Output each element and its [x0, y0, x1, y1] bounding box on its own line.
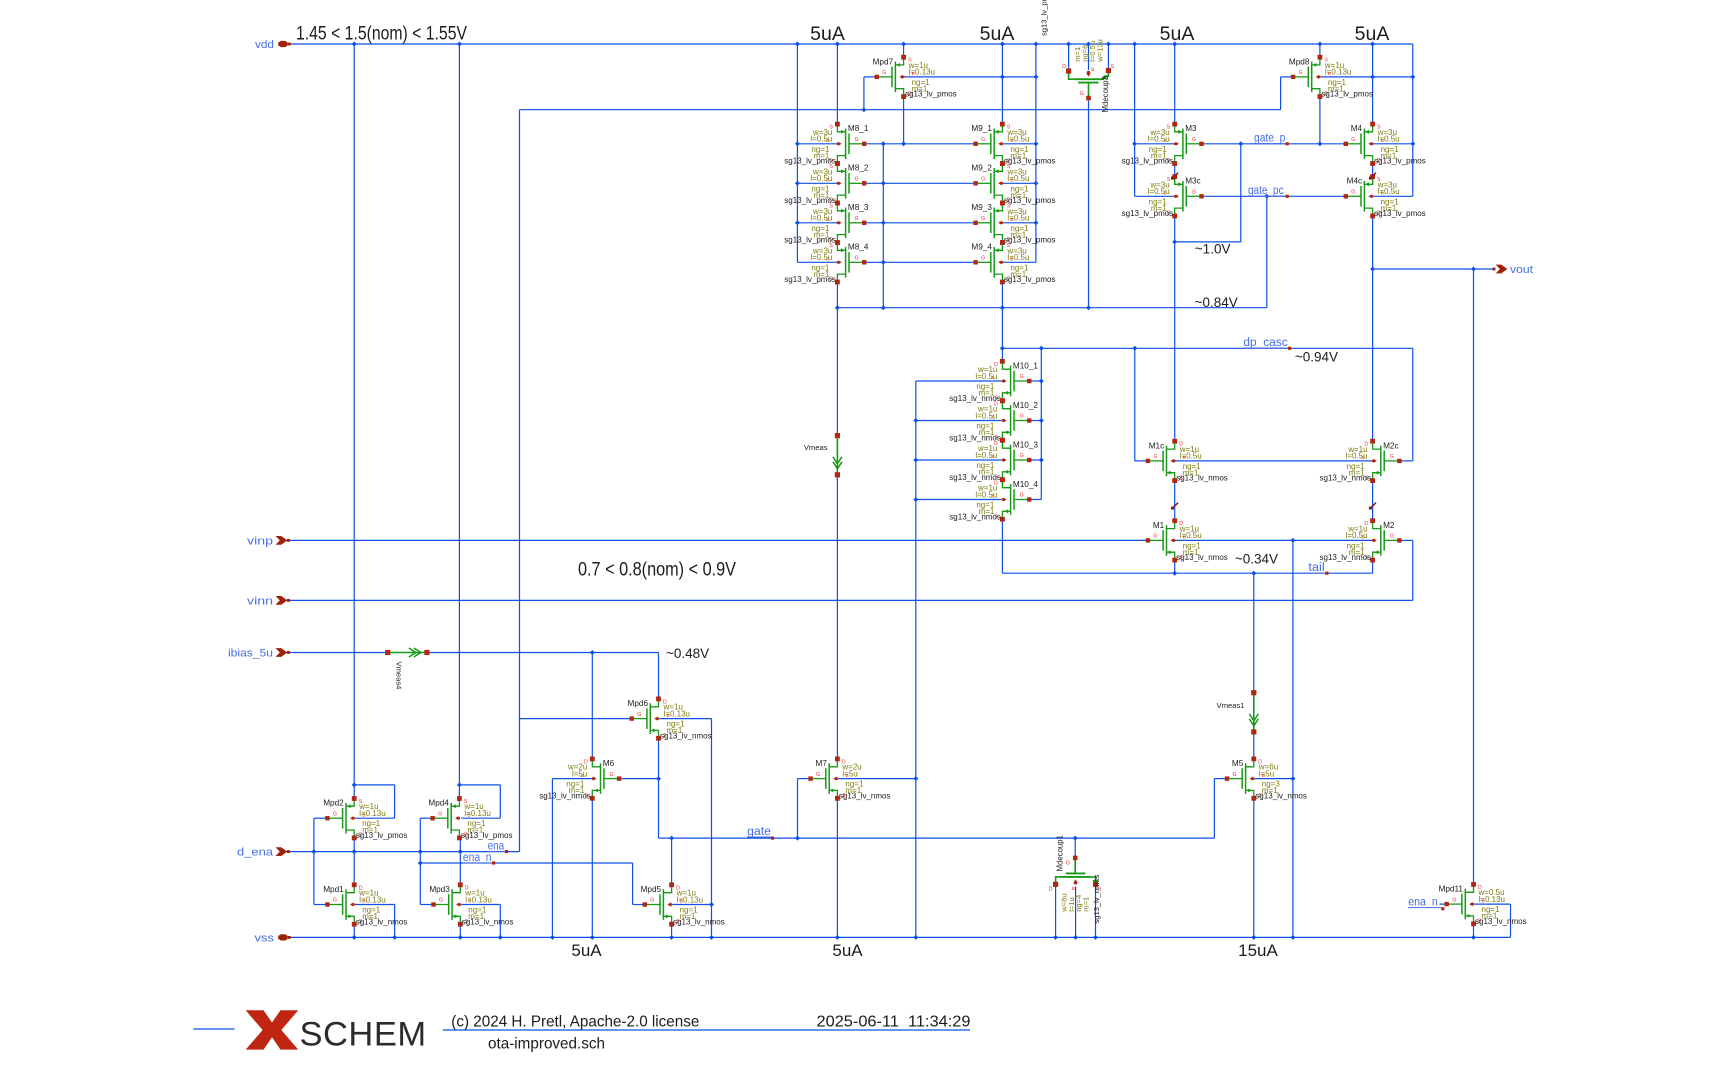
svg-text:l=0.5u: l=0.5u	[1007, 174, 1029, 183]
nmos M10_2	[1002, 402, 1010, 409]
wire gate_p label row	[1202, 143, 1347, 145]
svg-text:D: D	[1049, 887, 1053, 893]
wire Mpd7 bulk to vdd	[903, 76, 1036, 78]
svg-text:G: G	[1020, 493, 1024, 499]
svg-text:ibias_5u: ibias_5u	[228, 648, 273, 660]
svg-text:G: G	[1233, 772, 1237, 778]
nmos M2	[1373, 522, 1381, 529]
svg-text:5uA: 5uA	[980, 23, 1015, 45]
nmos Mpd11	[1465, 885, 1473, 892]
svg-text:5uA: 5uA	[832, 941, 863, 960]
svg-text:sg13_lv_pmos: sg13_lv_pmos	[1374, 157, 1426, 166]
svg-text:sg13_lv_nmos: sg13_lv_nmos	[1092, 874, 1101, 923]
svg-text:ena_n: ena_n	[1408, 897, 1438, 909]
junction dots	[352, 42, 357, 47]
port vinn	[276, 596, 288, 605]
svg-text:G: G	[1080, 91, 1084, 97]
wire ena_n row	[420, 862, 632, 864]
svg-text:M8_3: M8_3	[848, 203, 869, 212]
svg-text:G: G	[1020, 414, 1024, 420]
svg-text:G: G	[333, 898, 337, 904]
svg-text:G: G	[981, 216, 985, 222]
pmos M4c	[1364, 178, 1372, 185]
svg-text:M2: M2	[1383, 521, 1395, 530]
port vdd	[278, 41, 288, 47]
svg-text:l=0.5u: l=0.5u	[1007, 214, 1029, 223]
svg-text:l=5u: l=5u	[572, 769, 587, 778]
svg-text:Mpd4: Mpd4	[428, 799, 449, 808]
svg-text:sg13_lv_pmos: sg13_lv_pmos	[905, 90, 957, 99]
wire M6 gate to diode node	[619, 778, 659, 780]
svg-text:w=12u: w=12u	[1095, 39, 1104, 63]
svg-text:vdd: vdd	[255, 39, 274, 51]
svg-text:M8_1: M8_1	[848, 124, 869, 133]
svg-text:l=0.5u: l=0.5u	[1346, 452, 1368, 461]
wire Mpd11 gate stub	[1440, 903, 1447, 905]
wire M1-M2 bulk row	[1173, 539, 1375, 541]
wire M8 bulk rail	[796, 44, 798, 262]
wire M10 drain column	[1001, 348, 1003, 362]
nmos Mpd5	[663, 886, 671, 893]
wire vinp row	[289, 539, 1148, 541]
pmos M3c	[1175, 178, 1183, 185]
svg-text:l=0.5u: l=0.5u	[1346, 531, 1368, 540]
pmos Mdecoup3 (rotated)	[1069, 71, 1074, 79]
svg-text:l=0.13u: l=0.13u	[359, 809, 385, 818]
svg-text:l=0.5u: l=0.5u	[1007, 135, 1029, 144]
svg-text:sg13_lv_pmos: sg13_lv_pmos	[1122, 157, 1174, 166]
title underline	[443, 1029, 970, 1031]
wire Mpd3 source to vss	[459, 924, 461, 937]
ammeter Vmeas1	[1253, 693, 1255, 732]
svg-text:M5: M5	[1232, 759, 1244, 768]
svg-text:1.45 < 1.5(nom) < 1.55V: 1.45 < 1.5(nom) < 1.55V	[296, 23, 467, 44]
wire ibias corner to Mpd6	[658, 653, 660, 699]
svg-text:l=0.5u: l=0.5u	[1378, 135, 1400, 144]
svg-text:sg13_lv_pmos: sg13_lv_pmos	[784, 157, 836, 166]
wire M2c source to M2 drain	[1372, 481, 1374, 521]
wire M10 source to tail	[1001, 520, 1003, 574]
svg-text:G: G	[610, 772, 614, 778]
nmos M6	[592, 760, 600, 767]
svg-text:~0.48V: ~0.48V	[666, 646, 709, 661]
pmos M8_3	[837, 204, 845, 211]
svg-text:M10_2: M10_2	[1013, 401, 1038, 410]
svg-text:tail: tail	[1308, 562, 1324, 574]
wire Mpd3 column	[459, 852, 461, 885]
current hook M2c	[1370, 503, 1376, 508]
wire vout to Mpd11 column	[1473, 269, 1475, 885]
pmos M9_1	[994, 125, 1002, 132]
nmos M5	[1246, 760, 1254, 767]
svg-text:d_ena: d_ena	[237, 847, 273, 859]
svg-text:Mpd5: Mpd5	[641, 885, 662, 894]
nmos Mpd6	[650, 700, 658, 707]
wire Mpd8 drain to gate_p	[1319, 97, 1321, 144]
nmos M10_1	[1002, 362, 1010, 369]
svg-text:M8_4: M8_4	[848, 243, 869, 252]
wire Mpd4 source to vdd	[458, 44, 460, 799]
wire Mpd8 source	[1319, 44, 1321, 57]
wire Vmeas1 to M5 drain	[1253, 732, 1255, 759]
nmos Mpd1	[346, 886, 354, 893]
wire Mdecoup1 gate to gate row	[1074, 838, 1076, 856]
svg-text:gate: gate	[747, 826, 771, 838]
wire Mpd5 source to vss	[671, 924, 673, 937]
wire ena top run	[520, 109, 1281, 111]
svg-text:G: G	[1066, 861, 1070, 867]
wire Mpd7 source	[903, 44, 905, 57]
svg-text:sg13_lv_pmos: sg13_lv_pmos	[356, 831, 408, 840]
wire M7 source to vss	[836, 798, 838, 937]
svg-text:M10_4: M10_4	[1013, 480, 1038, 489]
wire Mpd7 drain to gate_p	[903, 97, 905, 144]
svg-text:ota-improved.sch: ota-improved.sch	[488, 1036, 605, 1053]
svg-text:ena: ena	[488, 840, 505, 852]
wire gate_pc label row	[1202, 195, 1347, 197]
wire Mdecoup3 gate to 0.84V	[1088, 101, 1090, 308]
svg-text:l=0.13u: l=0.13u	[464, 809, 490, 818]
svg-text:l=0.13u: l=0.13u	[909, 68, 935, 77]
wire gate_p row M8-M9	[864, 143, 975, 145]
svg-text:l=0.5u: l=0.5u	[1007, 253, 1029, 262]
wire Mpd2 bulk loop	[355, 817, 395, 819]
wire M10 gate chain	[1040, 348, 1042, 499]
pmos M8_1	[837, 125, 845, 132]
svg-text:vss: vss	[255, 933, 275, 945]
wire Mpd2 drain to Mpd1	[353, 838, 355, 885]
wire Mpd11 source to vss	[1473, 924, 1475, 937]
svg-text:l=0.13u: l=0.13u	[1325, 68, 1351, 77]
svg-text:~1.0V: ~1.0V	[1195, 242, 1231, 257]
svg-text:5uA: 5uA	[1160, 23, 1195, 45]
wire Mpd8 bulk to vdd	[1321, 76, 1413, 78]
wire Mpd1 source to vss	[353, 924, 355, 937]
wire Mpd6 bulk to vss	[659, 718, 711, 720]
current hook M4	[1370, 173, 1376, 178]
nmos M10_3	[1002, 441, 1010, 448]
wire M5 bulk	[1255, 778, 1293, 780]
pmos Mpd8	[1312, 58, 1320, 65]
wire Mpd2 source to vdd	[353, 44, 355, 799]
svg-text:Mpd11: Mpd11	[1439, 885, 1464, 894]
svg-text:Vmeas1: Vmeas1	[1217, 701, 1245, 710]
wire Mpd1 bulk to vss	[355, 904, 395, 906]
svg-text:sg13_lv_nmos: sg13_lv_nmos	[949, 512, 1001, 521]
svg-text:M1: M1	[1153, 521, 1165, 530]
svg-text:Mpd6: Mpd6	[628, 699, 649, 708]
wire M5 column to tail	[1253, 573, 1255, 693]
svg-text:G: G	[438, 811, 442, 817]
svg-text:sg13_lv_nmos: sg13_lv_nmos	[356, 917, 408, 926]
svg-text:l=5u: l=5u	[1259, 769, 1274, 778]
wire Mpd6 gate to ena	[520, 718, 632, 720]
svg-text:B: B	[1091, 67, 1094, 73]
svg-text:l=0.5u: l=0.5u	[1180, 531, 1202, 540]
wire M5 source to vss	[1253, 798, 1255, 937]
svg-text:l=0.5u: l=0.5u	[975, 411, 997, 420]
svg-text:G: G	[1351, 137, 1355, 143]
svg-text:sg13_lv_nmos: sg13_lv_nmos	[539, 791, 591, 800]
svg-text:sg13_lv_nmos: sg13_lv_nmos	[1475, 917, 1527, 926]
svg-text:sg13_lv_pmos: sg13_lv_pmos	[1122, 209, 1174, 218]
svg-text:M4c: M4c	[1347, 177, 1362, 186]
svg-text:Mpd2: Mpd2	[323, 799, 344, 808]
svg-text:B: B	[1072, 886, 1075, 892]
wire M4 bulk to vdd	[1412, 44, 1414, 196]
wire vdd rail	[290, 43, 1413, 45]
svg-text:sg13_lv_nmos: sg13_lv_nmos	[462, 917, 514, 926]
wire Mpd4 bulk loop	[461, 817, 500, 819]
svg-text:Mpd8: Mpd8	[1289, 57, 1310, 66]
svg-text:G: G	[1020, 453, 1024, 459]
wire M9 bulk rail	[1035, 44, 1037, 262]
xschem logo X	[246, 1010, 299, 1049]
svg-text:gate_p: gate_p	[1254, 133, 1285, 145]
current hook M3	[1173, 173, 1179, 178]
svg-text:sg13_lv_pmos: sg13_lv_pmos	[1040, 0, 1049, 36]
wire M4 source to vdd	[1372, 44, 1374, 124]
wire M3 source to vdd	[1174, 44, 1176, 124]
svg-text:M9_2: M9_2	[971, 164, 992, 173]
svg-text:G: G	[855, 177, 859, 183]
svg-text:l=0.5u: l=0.5u	[810, 214, 832, 223]
svg-text:D: D	[1062, 64, 1066, 70]
port ibias_5u	[276, 648, 288, 657]
svg-text:l=0.5u: l=0.5u	[810, 253, 832, 262]
wire M8 source to vdd	[836, 44, 838, 124]
nmos M10_4	[1002, 481, 1010, 488]
svg-text:sg13_lv_pmos: sg13_lv_pmos	[1374, 209, 1426, 218]
svg-text:sg13_lv_pmos: sg13_lv_pmos	[461, 831, 513, 840]
svg-text:sg13_lv_pmos: sg13_lv_pmos	[1004, 196, 1056, 205]
svg-text:Mpd3: Mpd3	[429, 885, 450, 894]
wire gate_pc riser	[1266, 196, 1268, 307]
svg-text:M2c: M2c	[1383, 441, 1398, 450]
wire M3 bulk to vdd	[1134, 44, 1136, 196]
svg-text:Vmeas4: Vmeas4	[395, 662, 404, 690]
svg-text:sg13_lv_nmos: sg13_lv_nmos	[1320, 553, 1372, 562]
title underline left	[193, 1028, 234, 1030]
svg-text:l=0.5u: l=0.5u	[975, 490, 997, 499]
svg-text:~0.94V: ~0.94V	[1295, 349, 1338, 364]
svg-text:G: G	[855, 137, 859, 143]
svg-text:sg13_lv_nmos: sg13_lv_nmos	[1320, 474, 1372, 483]
svg-text:G: G	[1192, 190, 1196, 196]
wire M9 drain to 0.84V row	[1001, 282, 1003, 348]
pmos M8_2	[837, 165, 845, 172]
svg-text:5uA: 5uA	[810, 23, 845, 45]
svg-text:G: G	[981, 256, 985, 262]
svg-text:sg13_lv_nmos: sg13_lv_nmos	[839, 791, 891, 800]
wire Mpd11 bulk	[1474, 903, 1510, 905]
pmos M8_4	[837, 244, 845, 251]
pmos M9_4	[994, 244, 1002, 251]
svg-text:l=0.13u: l=0.13u	[465, 895, 491, 904]
svg-text:G: G	[650, 898, 654, 904]
svg-text:l=0.13u: l=0.13u	[664, 709, 690, 718]
svg-text:~0.34V: ~0.34V	[1235, 552, 1278, 567]
svg-text:M10_1: M10_1	[1013, 361, 1038, 370]
svg-text:G: G	[1351, 190, 1355, 196]
port vss	[278, 934, 288, 940]
pmos M9_3	[994, 204, 1002, 211]
svg-text:vinn: vinn	[247, 596, 273, 608]
svg-text:G: G	[816, 772, 820, 778]
wire M6 drain column	[591, 653, 593, 759]
port d_ena	[276, 847, 288, 856]
wire Mdecoup3 columns	[1068, 44, 1070, 69]
svg-text:G: G	[882, 70, 886, 76]
wire M9 source to vdd	[1001, 44, 1003, 124]
wire vinn row	[289, 599, 1413, 601]
svg-text:G: G	[855, 216, 859, 222]
wire Mpd2-Mpd1 gate column	[313, 818, 315, 904]
wire tail row	[1002, 572, 1372, 574]
pmos Mpd2	[346, 800, 354, 807]
svg-text:SCHEM: SCHEM	[300, 1016, 427, 1054]
nmos Mpd3	[452, 886, 460, 893]
svg-text:sg13_lv_pmos: sg13_lv_pmos	[1004, 275, 1056, 284]
wire M2c gate to dp_casc	[1412, 348, 1414, 461]
svg-text:l=0.5u: l=0.5u	[810, 174, 832, 183]
wire Mpd4-Mpd3 gate column	[419, 818, 421, 904]
svg-text:l=0.5u: l=0.5u	[975, 372, 997, 381]
svg-text:sg13_lv_pmos: sg13_lv_pmos	[784, 196, 836, 205]
svg-text:G: G	[1390, 534, 1394, 540]
svg-text:dp_casc: dp_casc	[1243, 337, 1288, 349]
svg-text:G: G	[1452, 897, 1456, 903]
nmos M1c	[1167, 442, 1175, 449]
wire vss row	[289, 936, 1511, 938]
svg-text:sg13_lv_nmos: sg13_lv_nmos	[1176, 474, 1228, 483]
svg-text:l=0.5u: l=0.5u	[1378, 187, 1400, 196]
svg-text:sg13_lv_pmos: sg13_lv_pmos	[1004, 236, 1056, 245]
wire ibias row	[289, 652, 388, 654]
svg-text:M4: M4	[1351, 124, 1363, 133]
svg-text:l=0.5u: l=0.5u	[810, 135, 832, 144]
svg-text:M3: M3	[1185, 124, 1197, 133]
wire Mpd6 source to gate row	[658, 738, 660, 838]
svg-text:sg13_lv_nmos: sg13_lv_nmos	[1176, 553, 1228, 562]
svg-text:15uA: 15uA	[1238, 941, 1278, 960]
pmos M3	[1175, 125, 1183, 132]
svg-text:G: G	[1299, 70, 1303, 76]
wire M7 bulk	[838, 778, 916, 780]
svg-text:l=0.13u: l=0.13u	[1479, 895, 1505, 904]
wire M5 gate riser	[1214, 778, 1227, 780]
svg-text:sg13_lv_nmos: sg13_lv_nmos	[673, 917, 725, 926]
ammeter Vmeas	[836, 436, 838, 475]
port vinp	[276, 536, 288, 545]
svg-text:gate_pc: gate_pc	[1248, 185, 1284, 197]
wire M6 bulk to vss	[552, 778, 591, 780]
pmos M9_2	[994, 165, 1002, 172]
wire Mpd3 bulk to vss	[461, 904, 500, 906]
pmos M4	[1364, 125, 1372, 132]
wire M8 gate chain	[882, 144, 884, 308]
svg-text:G: G	[637, 712, 641, 718]
svg-text:Mpd1: Mpd1	[323, 885, 344, 894]
nmos Mdecoup1 (rotated)	[1056, 877, 1061, 884]
pmos Mpd7	[895, 58, 903, 65]
svg-text:l=0.13u: l=0.13u	[677, 895, 703, 904]
wire M1c source to M1 drain	[1174, 481, 1176, 521]
svg-text:5uA: 5uA	[1355, 23, 1390, 45]
wire Mdecoup1 columns to vss	[1055, 887, 1057, 938]
svg-text:l=0.13u: l=0.13u	[359, 895, 385, 904]
svg-text:Mpd7: Mpd7	[873, 57, 894, 66]
svg-text:Vmeas: Vmeas	[804, 443, 828, 452]
svg-text:G: G	[439, 898, 443, 904]
wire M4c drain to vout	[1372, 163, 1374, 184]
svg-text:G: G	[1153, 534, 1157, 540]
wire Mpd5 bulk	[672, 904, 711, 906]
wire dp_casc row	[1002, 347, 1412, 349]
wire Mpd8 gate	[1281, 76, 1294, 78]
svg-text:sg13_lv_pmos: sg13_lv_pmos	[784, 275, 836, 284]
wire M10 bulk rail	[915, 381, 917, 937]
svg-text:vinp: vinp	[247, 536, 273, 548]
svg-text:M3c: M3c	[1185, 177, 1200, 186]
nmos M1	[1167, 522, 1175, 529]
svg-text:M9_4: M9_4	[971, 243, 992, 252]
svg-text:G: G	[1192, 137, 1196, 143]
ammeter Vmeas4	[388, 652, 427, 654]
wire Mpd5 drain to gate row	[671, 838, 673, 885]
svg-text:0.7 < 0.8(nom) < 0.9V: 0.7 < 0.8(nom) < 0.9V	[578, 560, 736, 581]
svg-text:m=1: m=1	[1081, 897, 1090, 912]
wire M2 source	[1372, 561, 1374, 573]
current hook M1c	[1173, 503, 1179, 508]
wire M1c gate to dp_casc	[1134, 348, 1136, 461]
svg-text:l=5u: l=5u	[842, 769, 857, 778]
svg-text:sg13_lv_pmos: sg13_lv_pmos	[1004, 157, 1056, 166]
svg-text:vout: vout	[1510, 264, 1533, 276]
wire ena vertical	[519, 110, 521, 852]
svg-text:M7: M7	[816, 759, 828, 768]
nmos M7	[829, 760, 837, 767]
wire M1 source to tail	[1174, 561, 1176, 573]
svg-text:M9_1: M9_1	[971, 124, 992, 133]
wire d_ena row	[289, 851, 520, 853]
svg-text:ena_n: ena_n	[463, 852, 492, 864]
svg-text:G: G	[981, 137, 985, 143]
svg-text:2025-06-11 11:34:29: 2025-06-11 11:34:29	[817, 1013, 971, 1030]
svg-text:G: G	[1020, 374, 1024, 380]
wire M6 source to vss	[591, 798, 593, 937]
svg-text:G: G	[855, 256, 859, 262]
svg-text:G: G	[1390, 454, 1394, 460]
wire bulk to vss column	[1292, 540, 1294, 937]
wire gate row	[659, 837, 1215, 839]
svg-text:G: G	[1153, 454, 1157, 460]
svg-text:sg13_lv_nmos: sg13_lv_nmos	[1255, 791, 1307, 800]
svg-text:G: G	[333, 811, 337, 817]
svg-text:M6: M6	[603, 759, 615, 768]
svg-text:M1c: M1c	[1149, 441, 1164, 450]
wire M1c-M2c bulk row	[1173, 460, 1375, 462]
wire Vmeas column	[836, 308, 838, 436]
svg-text:l=0.5u: l=0.5u	[1180, 452, 1202, 461]
svg-text:sg13_lv_pmos: sg13_lv_pmos	[784, 236, 836, 245]
wire Mpd4 drain to d_ena	[459, 838, 461, 852]
nmos M2c	[1373, 442, 1381, 449]
wire M7 gate riser	[798, 778, 811, 780]
wire vout row	[1373, 268, 1495, 270]
svg-text:5uA: 5uA	[571, 941, 602, 960]
wire M3c drain column	[1174, 163, 1176, 184]
